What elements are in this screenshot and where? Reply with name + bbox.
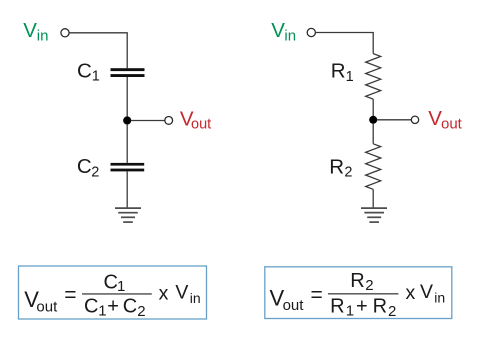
capacitor C2 label: [77, 155, 99, 181]
svg-text:R: R: [329, 156, 344, 179]
wire node to Vout terminal (left): [131, 120, 165, 122]
svg-text:C: C: [84, 296, 98, 318]
wire node to C2 top: [126, 124, 128, 163]
formula box (left): [19, 266, 207, 319]
svg-text:2: 2: [91, 164, 99, 180]
capacitor C2: [111, 163, 145, 172]
svg-text:2: 2: [388, 303, 396, 320]
formula Vout = R2/(R1+R2) x Vin: [270, 270, 446, 320]
wire R2 bottom to ground: [372, 189, 374, 208]
resistor R1: [366, 54, 381, 100]
svg-text:C: C: [77, 60, 92, 83]
wire node to R2 top: [372, 124, 374, 144]
svg-text:in: in: [434, 290, 445, 306]
wire C2 bottom to ground: [126, 171, 128, 208]
resistor R2: [366, 144, 381, 190]
wire Vin terminal to R1 top: [316, 33, 374, 54]
svg-text:out: out: [283, 297, 305, 314]
ground (right): [361, 208, 387, 222]
svg-text:2: 2: [137, 303, 145, 320]
resistor R2 label: [329, 156, 352, 181]
svg-text:R: R: [373, 296, 387, 318]
fraction bar (right formula): [328, 293, 398, 295]
svg-text:2: 2: [344, 164, 352, 180]
terminal Vout (right, open circle): [411, 116, 418, 123]
svg-text:in: in: [37, 27, 49, 44]
node Vin label (right): [271, 19, 296, 45]
svg-text:+: +: [107, 296, 119, 318]
wire Vin terminal to C1 top: [69, 33, 127, 68]
svg-text:out: out: [36, 299, 58, 316]
formula Vout = C1/(C1+C2) x Vin: [24, 271, 200, 319]
svg-text:2: 2: [365, 277, 373, 294]
svg-text:in: in: [284, 28, 296, 45]
svg-text:out: out: [191, 116, 211, 132]
formula box (right): [265, 267, 452, 319]
capacitor C1: [111, 68, 145, 77]
svg-text:=: =: [311, 283, 323, 306]
svg-text:1: 1: [346, 69, 354, 85]
svg-text:+: +: [356, 296, 368, 318]
svg-text:x: x: [159, 282, 169, 304]
svg-text:V: V: [271, 19, 285, 42]
capacitor C1 label: [77, 60, 100, 85]
terminal Vin (left, open circle): [61, 29, 69, 37]
ground (left): [115, 208, 141, 222]
terminal Vout (left, open circle): [165, 117, 173, 125]
svg-text:C: C: [77, 155, 92, 178]
node Vout label (right): [428, 107, 462, 133]
node Vout label (left): [180, 107, 211, 132]
svg-text:C: C: [123, 296, 137, 318]
svg-text:in: in: [190, 290, 201, 306]
wire node to Vout terminal (right): [377, 119, 412, 121]
svg-text:V: V: [420, 281, 433, 303]
resistor R1 label: [331, 60, 354, 85]
svg-text:R: R: [350, 270, 364, 292]
svg-text:1: 1: [98, 303, 106, 320]
svg-text:V: V: [175, 282, 188, 304]
node Vin label (left): [23, 19, 48, 44]
wire R1 bottom to node: [372, 99, 374, 116]
svg-text:1: 1: [92, 69, 100, 85]
terminal Vin (right, open circle): [307, 28, 315, 36]
fraction bar (left formula): [82, 293, 152, 295]
svg-text:C: C: [104, 271, 118, 293]
junction node (left): [123, 116, 131, 124]
svg-text:out: out: [441, 116, 463, 133]
svg-text:V: V: [23, 19, 37, 42]
svg-text:R: R: [331, 60, 346, 83]
svg-text:1: 1: [346, 303, 354, 320]
svg-text:R: R: [330, 296, 344, 318]
svg-text:x: x: [406, 282, 416, 304]
junction node (right): [369, 116, 377, 124]
wire C1 bottom to node: [126, 77, 128, 117]
svg-text:=: =: [64, 283, 76, 306]
svg-text:1: 1: [117, 278, 125, 295]
